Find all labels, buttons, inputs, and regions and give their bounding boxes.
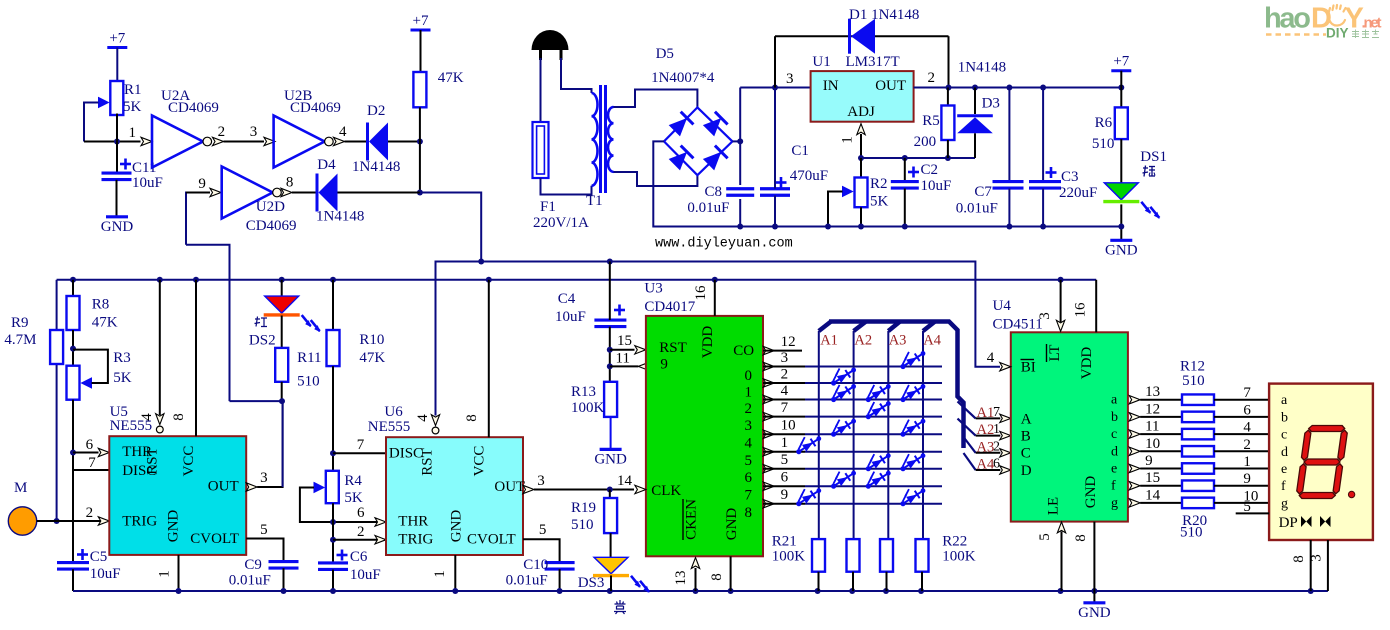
U6 text OUT [494,479,525,495]
svg-text:5: 5 [781,452,789,468]
pin 7 label U6 [357,437,365,453]
resistor R13 [604,382,617,417]
svg-text:0: 0 [745,368,753,384]
svg-text:9: 9 [1145,453,1153,469]
label red char [255,317,268,327]
svg-text:GND: GND [1105,242,1138,258]
svg-text:1N4148: 1N4148 [958,60,1006,76]
wire T1 sec bottom [614,172,698,186]
svg-text:CD4069: CD4069 [290,100,341,116]
label D2 1N4148 [352,159,400,175]
U6 CVOLT pin [523,539,560,562]
U5 RST pin [156,280,164,433]
wire 47K node [417,107,423,195]
label A2 [977,422,1001,438]
matrix LED row1 A2 [829,366,856,386]
svg-text:OUT: OUT [875,78,906,94]
wire IN rail [740,85,810,91]
label R20 510 [1180,513,1207,541]
svg-text:CD4069: CD4069 [168,100,219,116]
label R6 510 [1092,115,1115,152]
resistor array c [1182,429,1214,440]
svg-text:510: 510 [1092,136,1115,152]
logo haoDIY.net [1264,3,1382,41]
display text a [1281,393,1288,408]
wire R13-GND [610,417,612,450]
label A3 [977,439,1001,455]
svg-text:5: 5 [1243,499,1251,515]
svg-text:100K: 100K [942,549,976,565]
svg-text:C3: C3 [1061,169,1079,185]
svg-text:6: 6 [86,437,94,453]
pin 7 label [781,400,789,416]
svg-text:C7: C7 [974,184,992,200]
svg-text:+7: +7 [413,13,429,29]
op-amp U2A inverter [152,116,212,168]
svg-text:5K: 5K [870,194,889,210]
wire T1 sec top [614,90,698,108]
U4 text D [1021,463,1032,479]
U1 pin text IN [823,78,839,94]
pin arrow 1 [141,137,152,145]
svg-text:www.diyleyuan.com: www.diyleyuan.com [655,237,793,252]
wire plug-fuse [540,58,542,122]
svg-text:VCC: VCC [472,446,488,477]
svg-text:9: 9 [1243,471,1251,487]
svg-text:CVOLT: CVOLT [467,532,516,548]
U3 VDD pin [714,280,716,316]
pin 4 label [339,124,347,140]
svg-text:C10: C10 [523,557,548,573]
pin 3 label [781,350,789,366]
U5 pin8 label [171,413,187,421]
svg-text:8: 8 [745,505,753,521]
svg-text:1: 1 [129,125,137,141]
display cathode sym 1 [1301,516,1312,527]
display text g [1281,496,1288,511]
svg-text:g: g [1111,496,1118,511]
LED DS1 green [1103,183,1160,219]
pin arrow 9 [210,188,221,196]
label C2 10uF [921,162,952,194]
label C9 0.01uF [229,557,271,589]
pin 12 label [781,334,796,350]
capacitor C7 [993,88,1024,230]
potentiometer R1 [84,81,123,142]
U6 text THR [398,514,428,530]
pin 9 label [198,176,206,192]
pin 5 label [781,452,789,468]
pin 7 label [1243,385,1251,401]
svg-text:6: 6 [357,505,365,521]
svg-text:C9: C9 [244,557,262,573]
U4 output c [1129,430,1182,438]
svg-text:R8: R8 [92,297,110,313]
U3 output pin 3 [763,412,942,420]
wire osc control line [436,259,1001,416]
matrix LED row4 A4 [899,417,926,437]
svg-text:2: 2 [1243,437,1251,453]
svg-text:3: 3 [786,71,794,87]
svg-text:14: 14 [617,473,633,489]
svg-text:D5: D5 [656,46,674,62]
U3 text 0 [745,368,753,384]
resistor R19 [604,490,617,534]
svg-text:5K: 5K [123,99,142,115]
decoder U4 CD4511 [1011,332,1128,521]
svg-text:f: f [1111,479,1116,494]
pin 4 label [781,383,789,399]
svg-text:A3: A3 [977,439,995,455]
ground GND (C11) [101,217,134,235]
U4 LE pin [1057,522,1065,591]
svg-text:10: 10 [1145,436,1160,452]
svg-text:6: 6 [1243,402,1251,418]
label DS3 [578,575,605,591]
display text b [1281,410,1288,425]
svg-text:DIY: DIY [1326,26,1349,41]
svg-text:.net: .net [1362,15,1382,32]
svg-text:5: 5 [1037,533,1053,541]
pin arrow 3 [264,137,275,145]
svg-text:R5: R5 [922,113,940,129]
svg-text:4: 4 [745,436,753,452]
svg-text:a: a [1111,393,1118,408]
svg-text:CVOLT: CVOLT [190,531,239,547]
label 1N4007*4 [651,70,715,86]
label D2 [367,103,385,119]
pin arrow 8 [281,188,292,196]
svg-text:LM317T: LM317T [846,54,900,70]
label R19 510 [571,500,596,533]
label U1 LM317T [812,54,899,70]
op-amp U2B inverter [274,116,334,168]
bridge diode SW [668,146,693,171]
pin 14 label [1145,487,1161,503]
pin 4 label [1243,420,1251,436]
pin 15 label [1145,470,1160,486]
motor M [8,507,36,535]
svg-text:T1: T1 [586,193,603,209]
transformer T1 core [601,85,606,193]
svg-text:C8: C8 [705,184,723,200]
svg-text:CLK: CLK [651,483,681,499]
bus to U4 [819,322,964,449]
wire main +7 rail [57,277,1097,283]
label C7 0.01uF [956,184,998,217]
U3 text CO [733,343,754,359]
label R21 100K [772,534,806,565]
svg-text:R4: R4 [344,473,362,489]
svg-text:R1: R1 [124,82,142,98]
label R2 5K [870,176,889,210]
wire ground rail [73,588,1328,594]
svg-text:R10: R10 [359,332,384,348]
capacitor C5 [57,549,89,591]
svg-text:11: 11 [1145,419,1159,435]
U3 text 4 [745,436,753,452]
display body [1269,384,1373,540]
svg-text:2: 2 [928,70,936,86]
display cathode sym 2 [1320,516,1331,527]
svg-text:RST: RST [145,447,161,475]
label R9 4.7M [4,315,36,348]
display pin3 label [1309,554,1325,562]
pin 5 label DP [1243,499,1251,515]
matrix LED row2 A3 [864,383,891,403]
svg-text:GND: GND [101,219,134,235]
U3 text 6 [745,470,753,486]
wire C8 branch [737,88,743,230]
pin 5 label U5 [260,522,268,538]
svg-text:R6: R6 [1095,115,1113,131]
label C4 10uF [555,291,586,325]
U3 CKEN pin [691,558,699,592]
wire D2-node [388,139,423,145]
U4 output a [1129,396,1182,404]
U4 text B [1021,429,1031,445]
label D1 1N4148 [849,7,919,23]
svg-text:5K: 5K [113,370,132,386]
svg-text:510: 510 [1182,373,1205,389]
label U5 NE555 [110,404,153,434]
pin 2 label [218,124,226,140]
wire res-display g [1214,502,1269,504]
U4 VDD pin [1095,280,1097,333]
U3 pin16 label [693,285,709,301]
U3 text 9 [660,356,668,372]
label D4 [317,157,336,173]
display digit 8 [1296,426,1349,499]
U4 BI pin [1000,363,1011,371]
display pin 8 wire [1310,540,1312,591]
svg-text:10uF: 10uF [90,566,121,582]
svg-text:OUT: OUT [208,479,239,495]
bridge diode NW [668,112,693,137]
diode D4 [317,174,338,212]
U3 output pin 7 [763,482,942,490]
svg-text:4: 4 [987,350,995,366]
U5 GND pin [176,555,182,594]
pin 1 label [129,125,137,141]
svg-text:3: 3 [1037,312,1053,320]
svg-text:8: 8 [171,413,187,421]
resistor R5 [941,88,954,159]
pin 9 label [1145,453,1153,469]
svg-text:R19: R19 [571,500,596,516]
pin 6 label [1243,402,1251,418]
U5 pin1 label [157,570,173,578]
display segment DP [1348,491,1354,497]
matrix LED row2 A2 [829,383,856,403]
svg-text:4: 4 [1243,420,1251,436]
svg-text:5: 5 [539,522,547,538]
resistor array b [1182,412,1214,423]
svg-text:hao: hao [1264,3,1311,35]
svg-text:10uF: 10uF [921,178,952,194]
resistor array a [1182,394,1214,405]
U4 text g [1111,496,1118,511]
U3 output pin 5 [763,448,942,456]
label D3 1N4148 [958,60,1006,76]
pin arrow 2 [213,137,224,145]
label R22 100K [942,534,976,565]
wire THR U6 [300,518,386,526]
svg-text:D4: D4 [317,157,336,173]
svg-text:DISC: DISC [389,446,423,462]
svg-text:4: 4 [339,124,347,140]
U6 pin8 label [464,414,480,422]
svg-text:100K: 100K [772,549,806,565]
label U4 CD4511 [993,298,1043,333]
label M [14,480,27,496]
matrix resistor A3 [880,539,893,591]
U3 text 7 [745,488,753,504]
U4 output b [1129,413,1182,421]
U6 text GND [449,510,465,543]
svg-text:1: 1 [840,136,856,144]
wire res-display f [1214,485,1269,487]
svg-text:510: 510 [571,517,594,533]
matrix resistor A2 [847,539,860,591]
U5 OUT pin [246,401,282,491]
svg-text:10: 10 [781,418,796,434]
label C11 10uF [132,160,163,191]
label A1 [977,405,1001,421]
wire left rail [54,280,60,524]
matrix LED row8 A1 [795,487,822,507]
display text d [1281,445,1288,460]
svg-text:A4: A4 [923,332,941,348]
svg-text:1N4148: 1N4148 [352,159,400,175]
U6 GND pin [452,555,458,594]
U1 pin text OUT [875,78,906,94]
svg-text:8: 8 [464,414,480,422]
svg-text:8: 8 [709,573,725,581]
U3 text GND [724,508,740,541]
U5 text TRIG [122,514,157,530]
svg-text:3: 3 [250,124,257,140]
wire U2B-D2 [345,141,368,143]
U4 output e [1129,464,1182,472]
matrix column A4 [923,331,942,539]
svg-text:10uF: 10uF [132,175,163,191]
matrix LED row0 A4 [899,350,926,370]
svg-text:200: 200 [914,134,937,150]
svg-text:D3: D3 [982,95,1000,111]
pin 6 label [781,470,789,486]
U4 output g [1129,499,1182,507]
svg-text:12: 12 [781,334,796,350]
resistor 47K [413,72,426,107]
svg-text:0.01uF: 0.01uF [956,201,998,217]
potentiometer R3 [67,350,108,400]
U4 pin16 label [1073,302,1089,318]
bridge diode SE [702,146,727,171]
label C3 220uF [1059,169,1097,201]
counter U3 CD4017 [646,316,763,556]
label R3 5K [113,350,132,386]
diode D1 [775,19,949,88]
svg-text:6: 6 [745,470,753,486]
AC plug [532,30,569,60]
U4 text b [1111,410,1118,425]
wire R6-DS1 [1120,139,1122,183]
wire R11-out [230,382,286,487]
svg-text:ADJ: ADJ [847,104,875,120]
label D3 [982,95,1000,111]
svg-text:220uF: 220uF [1059,185,1097,201]
svg-text:A2: A2 [854,332,872,348]
svg-text:10uF: 10uF [350,567,381,583]
U5 VCC pin [195,280,197,436]
svg-text:16: 16 [693,285,709,301]
resistor R11 [275,348,288,382]
svg-text:b: b [1281,410,1288,425]
svg-text:VDD: VDD [1079,347,1095,380]
U6 text TRIG [398,532,433,548]
matrix LED row6 A4 [899,452,926,472]
label F1 220V/1A [533,199,589,231]
label C6 10uF [350,549,381,583]
svg-text:R22: R22 [942,534,967,550]
label U3 CD4017 [644,281,695,315]
capacitor C3 [1029,88,1061,230]
pin 3 label [250,124,257,140]
diode D3 [957,88,993,159]
label DS2 [249,332,276,348]
matrix LED row7 A3 [864,469,891,489]
label C1 470uF [790,143,828,184]
matrix column A1 [819,331,838,539]
U4 text C [1021,446,1031,462]
node A2 branch [958,419,1011,440]
U4 text c [1111,427,1117,442]
wire osc out [420,193,481,262]
label green char [1142,165,1155,177]
svg-text:A: A [1021,411,1032,427]
U6 pin1 label [432,570,448,578]
U5 pin4 label [139,413,155,421]
matrix LED row4 A2 [829,417,856,437]
capacitor C4 [594,262,626,382]
svg-text:R11: R11 [297,350,321,366]
svg-text:DP: DP [1279,515,1298,531]
svg-text:13: 13 [1145,384,1160,400]
svg-text:U3: U3 [644,281,662,297]
svg-text:A3: A3 [889,332,907,348]
svg-text:TRIG: TRIG [122,514,157,530]
resistor array d [1182,446,1214,457]
U3 text 1 [745,385,753,401]
pin 7 label U5 [88,455,96,471]
svg-text:3: 3 [1309,554,1325,562]
bridge diode NE [702,112,727,137]
U3 output pin 6 [763,465,942,473]
svg-text:d: d [1281,445,1288,460]
svg-text:8: 8 [1073,534,1089,542]
U4 text GND [1083,476,1099,509]
svg-text:1: 1 [745,385,753,401]
svg-text:9: 9 [781,487,789,503]
U4 pin5 label [1037,533,1053,541]
U3 text VDD [700,326,716,359]
U3 output pin CO [763,346,802,354]
svg-text:DS3: DS3 [578,575,605,591]
ground GND (U4) [1078,603,1111,621]
svg-text:C5: C5 [90,549,108,565]
display DP pin [1236,512,1269,514]
